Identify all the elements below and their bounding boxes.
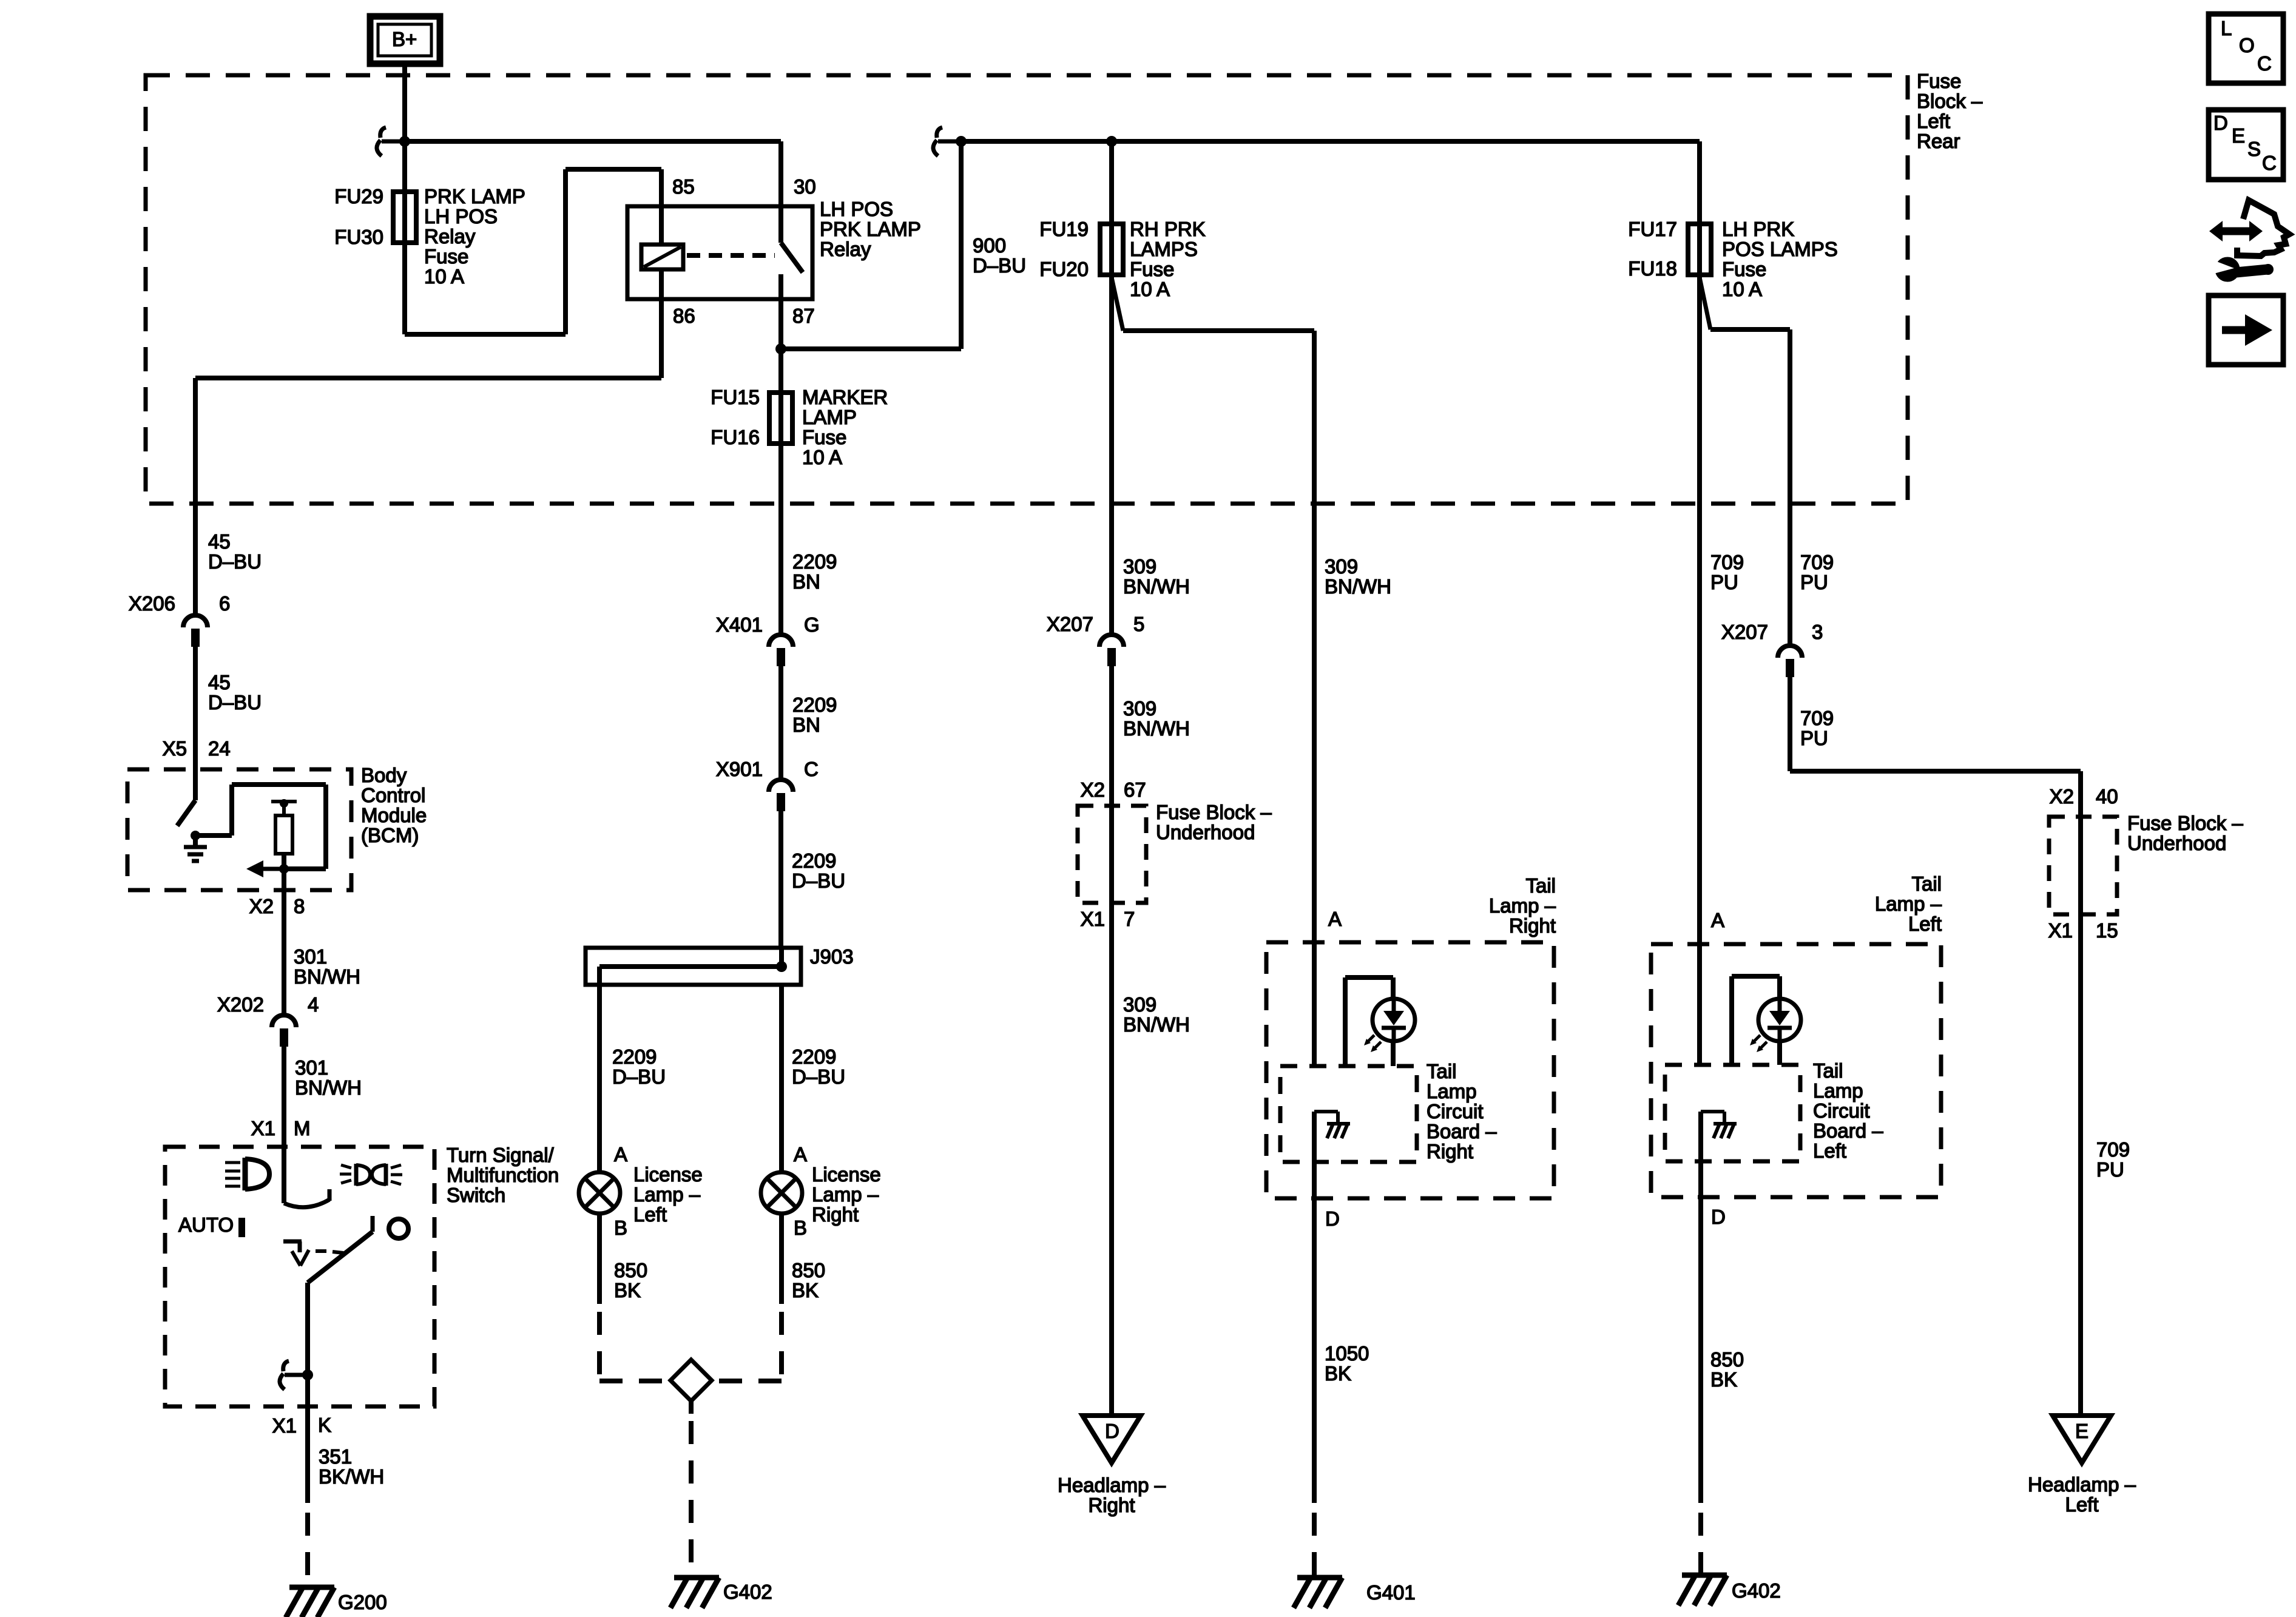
label X5: [163, 737, 187, 760]
svg-text:G401: G401: [1366, 1581, 1416, 1604]
label 309 BN/WH branch right: [1325, 555, 1391, 598]
svg-text:BN/WH: BN/WH: [295, 1076, 362, 1099]
svg-text:LAMPS: LAMPS: [1130, 238, 1198, 260]
svg-text:Right: Right: [1088, 1494, 1135, 1516]
svg-text:S: S: [2247, 138, 2261, 160]
svg-text:FU19: FU19: [1039, 218, 1089, 240]
label FU29: [334, 185, 383, 208]
tail lamp left LED return: [1777, 1041, 1782, 1065]
svg-text:A: A: [1328, 908, 1342, 930]
wire relay pin 86 to left branch: [195, 299, 661, 504]
svg-text:A: A: [1711, 909, 1724, 931]
svg-text:LAMP: LAMP: [802, 406, 857, 428]
connector X202 pin 4: [272, 1015, 296, 1047]
junction dot at FU19 tap: [1106, 136, 1117, 147]
label 2209 D-BU above J903: [792, 849, 845, 892]
svg-text:86: 86: [673, 305, 695, 327]
splice below switch: [280, 1361, 313, 1389]
splice S2 on right bus: [933, 127, 967, 156]
svg-text:BN/WH: BN/WH: [294, 965, 360, 988]
wire bus from S1 to relay pin 30: [405, 139, 781, 144]
label 709 PU lower: [2096, 1138, 2130, 1181]
BCM switch input wire and blade: [177, 769, 195, 826]
svg-text:2209: 2209: [792, 1045, 836, 1068]
svg-text:Left: Left: [1917, 110, 1950, 132]
svg-text:B: B: [794, 1217, 807, 1239]
license lamp right bulb: [761, 1172, 802, 1214]
connector X207 pin 5: [1099, 635, 1124, 666]
off-page connector E headlamp left: [2053, 1416, 2111, 1463]
svg-text:BN: BN: [792, 570, 820, 593]
svg-text:X207: X207: [1721, 621, 1768, 643]
relay actuator dashed link: [687, 253, 775, 258]
svg-text:D–BU: D–BU: [792, 869, 845, 892]
label pin 24: [208, 737, 231, 760]
wire X207-3 to fuse block underhood right: [1790, 677, 2081, 818]
svg-text:Fuse: Fuse: [802, 426, 846, 448]
svg-text:709: 709: [1800, 551, 1834, 573]
svg-text:2209: 2209: [792, 694, 837, 716]
svg-text:M: M: [294, 1117, 311, 1139]
label X207 (pin 3): [1721, 621, 1768, 643]
svg-text:G: G: [804, 613, 820, 636]
wire bus S2 to FU17: [961, 139, 1700, 144]
label 709 PU mid: [1800, 707, 1834, 749]
svg-text:Board –: Board –: [1813, 1119, 1883, 1142]
svg-text:X1: X1: [1081, 908, 1105, 930]
svg-text:7: 7: [1124, 908, 1135, 930]
svg-text:MARKER: MARKER: [802, 386, 888, 408]
tail lamp left output wire D: [1698, 1112, 1703, 1503]
svg-text:License: License: [633, 1163, 703, 1186]
label 351 BK/WH: [319, 1445, 384, 1488]
label pin K: [318, 1414, 331, 1436]
label License Lamp - Left: [633, 1163, 703, 1226]
svg-text:PU: PU: [1710, 571, 1738, 593]
relay coil: [641, 208, 683, 299]
svg-text:X401: X401: [716, 613, 763, 636]
label pin 3: [1812, 621, 1823, 643]
pin 30 label: [794, 175, 816, 198]
svg-text:10 A: 10 A: [1130, 278, 1170, 300]
label pin G: [804, 613, 820, 636]
label 850 BK left: [614, 1259, 647, 1301]
svg-text:PRK LAMP: PRK LAMP: [424, 185, 525, 208]
label pin 8: [294, 895, 305, 917]
svg-text:BN/WH: BN/WH: [1123, 1013, 1190, 1036]
dashed wire to ground G200: [305, 1513, 310, 1586]
label G402: [723, 1581, 772, 1603]
label 1050 BK: [1325, 1342, 1369, 1385]
svg-text:709: 709: [2096, 1138, 2130, 1161]
svg-text:Right: Right: [812, 1203, 859, 1226]
label pin M: [294, 1117, 311, 1139]
wire relay pin 87 down to junction: [778, 299, 783, 349]
pin 86 label: [673, 305, 695, 327]
label pin 6: [219, 592, 230, 615]
wire FU20 main down to X207-5: [1109, 277, 1114, 635]
label X1 (FB underhood): [1081, 908, 1105, 930]
wire bus corner down to fuse FU17: [1697, 141, 1702, 280]
headlamp icon: [225, 1158, 269, 1190]
label FU20: [1039, 258, 1089, 280]
label 309 BN/WH lower: [1123, 993, 1190, 1036]
icon car outline with arrows and wrench: [2209, 200, 2289, 282]
svg-text:LH PRK: LH PRK: [1722, 218, 1794, 240]
svg-text:709: 709: [1710, 551, 1744, 573]
svg-text:D–BU: D–BU: [208, 691, 262, 714]
turn signal / multifunction switch dashed box: [165, 1147, 434, 1406]
tail lamp left board ground: [1701, 1112, 1737, 1138]
fuse FU29/FU30 PRK LAMP LH POS Relay Fuse 10 A: [393, 192, 416, 243]
svg-text:X1: X1: [2048, 919, 2073, 942]
svg-text:D–BU: D–BU: [612, 1065, 666, 1088]
label X2 (FB underhood right): [2050, 785, 2074, 808]
svg-text:Tail: Tail: [1813, 1059, 1843, 1082]
svg-text:6: 6: [219, 592, 230, 615]
wire X206 to BCM pin X5-24: [193, 647, 198, 769]
svg-text:X2: X2: [249, 895, 274, 917]
svg-text:Lamp: Lamp: [1813, 1079, 1863, 1102]
svg-text:85: 85: [672, 175, 695, 198]
svg-text:AUTO: AUTO: [178, 1214, 234, 1236]
svg-text:Right: Right: [1509, 914, 1556, 937]
svg-text:850: 850: [792, 1259, 825, 1281]
tail lamp left LED branch: [1732, 976, 1780, 1065]
label X1 (switch bottom): [272, 1414, 297, 1437]
svg-text:D: D: [1325, 1207, 1340, 1230]
svg-text:2209: 2209: [792, 849, 836, 872]
dashed wire to ground G402 right: [1698, 1513, 1703, 1574]
label RH PRK LAMPS Fuse 10 A: [1130, 218, 1206, 300]
svg-text:8: 8: [294, 895, 305, 917]
label pin 7: [1124, 908, 1135, 930]
svg-text:J903: J903: [810, 945, 854, 968]
label Fuse Block - Underhood (middle): [1156, 801, 1272, 843]
wire FU18 main down to tail lamp left: [1697, 277, 1702, 944]
svg-text:Tail: Tail: [1911, 873, 1942, 895]
svg-text:Relay: Relay: [424, 225, 476, 248]
BCM sense arrow: [246, 860, 289, 877]
fuse FU19/FU20 RH PRK LAMPS Fuse 10 A: [1100, 224, 1123, 275]
label G401: [1366, 1581, 1416, 1604]
wire junction to fuse FU15: [778, 349, 783, 448]
label X206: [129, 592, 175, 615]
label LH PRK POS LAMPS Fuse 10 A: [1722, 218, 1838, 300]
switch contact circle: [389, 1219, 408, 1238]
tail lamp right circuit board dashed box: [1280, 1066, 1417, 1162]
tail lamp right LED branch: [1345, 977, 1393, 1066]
pin 87 label: [792, 305, 815, 327]
svg-text:67: 67: [1124, 778, 1146, 801]
svg-text:309: 309: [1123, 697, 1156, 720]
svg-text:301: 301: [295, 1056, 328, 1079]
label LH POS PRK LAMP Relay: [820, 198, 921, 260]
label pin 40: [2096, 785, 2118, 808]
svg-text:FU15: FU15: [711, 386, 760, 408]
svg-text:X202: X202: [217, 993, 264, 1016]
label pin B left lamp: [614, 1217, 627, 1239]
svg-text:709: 709: [1800, 707, 1834, 729]
BCM pull-up resistor: [271, 799, 297, 869]
wire switch to X1-K: [305, 1375, 310, 1503]
label X2 (FB underhood): [1081, 778, 1105, 801]
ground G402 (license lamps): [670, 1578, 719, 1608]
svg-text:Fuse: Fuse: [1130, 258, 1174, 280]
svg-text:G402: G402: [723, 1581, 772, 1603]
label FU18: [1628, 257, 1677, 280]
svg-text:Underhood: Underhood: [2127, 832, 2226, 854]
label FU17: [1628, 218, 1677, 240]
label pin C: [804, 758, 819, 780]
label pin D tail lamp left: [1711, 1206, 1726, 1228]
label Headlamp - Left: [2028, 1473, 2136, 1516]
label pin 5: [1133, 613, 1144, 635]
power terminal B+: [370, 16, 440, 64]
svg-text:X5: X5: [163, 737, 187, 760]
label X2: [249, 895, 274, 917]
svg-text:FU17: FU17: [1628, 218, 1677, 240]
svg-text:FU29: FU29: [334, 185, 383, 208]
svg-text:X2: X2: [2050, 785, 2074, 808]
label X202: [217, 993, 264, 1016]
wire B+ down to splice S1: [402, 64, 407, 141]
wire X207-5 to fuse block underhood: [1109, 666, 1114, 806]
svg-text:Fuse: Fuse: [1917, 70, 1961, 92]
svg-text:Relay: Relay: [820, 238, 871, 260]
label G200: [338, 1591, 387, 1613]
svg-text:D: D: [1711, 1206, 1726, 1228]
wire fuse block underhood to headlamp right: [1109, 903, 1114, 1416]
svg-text:X206: X206: [129, 592, 175, 615]
svg-text:309: 309: [1123, 555, 1156, 578]
wire FU18 branch to X207-3: [1700, 277, 1790, 646]
svg-text:PU: PU: [2096, 1158, 2124, 1181]
svg-text:D–BU: D–BU: [973, 254, 1026, 277]
fuse FU15/FU16 MARKER LAMP Fuse 10 A: [769, 393, 792, 444]
svg-text:850: 850: [1710, 1348, 1744, 1371]
wire J903 to license lamp right: [779, 985, 784, 1172]
ground G402 (tail lamp left): [1678, 1575, 1727, 1605]
svg-text:FU16: FU16: [711, 426, 760, 448]
label 2209 D-BU right: [792, 1045, 845, 1088]
svg-text:Lamp –: Lamp –: [1875, 893, 1942, 915]
connector X207 pin 3: [1778, 646, 1802, 677]
label X401: [716, 613, 763, 636]
svg-text:Fuse: Fuse: [424, 245, 468, 268]
switch detent symbol: [283, 1241, 343, 1266]
svg-text:C: C: [2262, 152, 2277, 174]
label Tail Lamp - Left: [1875, 873, 1942, 935]
svg-text:5: 5: [1133, 613, 1144, 635]
svg-text:Turn Signal/: Turn Signal/: [447, 1144, 555, 1166]
ground G401: [1294, 1578, 1342, 1608]
svg-text:309: 309: [1123, 993, 1156, 1016]
label 301 BN/WH upper: [294, 945, 360, 988]
svg-text:850: 850: [614, 1259, 647, 1281]
label FU15: [711, 386, 760, 408]
label 850 BK tail lamp left: [1710, 1348, 1744, 1391]
svg-text:D–BU: D–BU: [208, 550, 262, 573]
pin 85 label: [672, 175, 695, 198]
svg-text:309: 309: [1325, 555, 1358, 578]
tail lamp right board ground: [1314, 1112, 1350, 1138]
svg-text:(BCM): (BCM): [361, 824, 419, 846]
svg-text:45: 45: [208, 671, 231, 694]
svg-text:LH POS: LH POS: [820, 198, 893, 220]
svg-text:LH POS: LH POS: [424, 205, 498, 228]
svg-text:301: 301: [294, 945, 327, 968]
svg-text:BN: BN: [792, 714, 820, 736]
wire license lamp right to ground splice: [712, 1214, 782, 1381]
svg-text:10 A: 10 A: [802, 446, 842, 468]
tail lamp right output wire D: [1312, 1112, 1317, 1503]
wire bus tap to fuse FU19: [1109, 141, 1114, 280]
connector X901 pin C: [769, 780, 793, 811]
svg-text:Headlamp –: Headlamp –: [1058, 1474, 1166, 1496]
svg-text:Lamp: Lamp: [1427, 1080, 1477, 1102]
tail lamp left feed wire: [1697, 944, 1702, 1065]
label 2209 BN lower: [792, 694, 837, 736]
label 2209 D-BU left: [612, 1045, 666, 1088]
svg-text:X207: X207: [1047, 613, 1093, 635]
label Tail Lamp Circuit Board - Left: [1813, 1059, 1883, 1162]
relay K1 LH POS PRK LAMP Relay box: [627, 206, 812, 299]
svg-text:O: O: [2239, 34, 2255, 56]
label G402 right: [1732, 1579, 1781, 1602]
wire X202 to switch X1-M: [282, 1047, 286, 1147]
splice pack J903 box: [586, 948, 801, 985]
tail lamp right LED: [1364, 999, 1415, 1052]
fuse FU17/FU18 LH PRK POS LAMPS Fuse 10 A: [1688, 224, 1711, 275]
svg-text:Left: Left: [633, 1203, 667, 1226]
svg-text:Control: Control: [361, 784, 425, 806]
label Body Control Module (BCM): [361, 764, 427, 846]
label FU19: [1039, 218, 1089, 240]
off-page connector D headlamp right: [1082, 1416, 1141, 1463]
label 900 D-BU: [973, 234, 1026, 277]
label X1 (FB underhood right): [2048, 919, 2073, 942]
svg-text:Circuit: Circuit: [1813, 1099, 1870, 1122]
svg-text:4: 4: [308, 993, 319, 1016]
fuse block - underhood dashed box (right): [2049, 817, 2117, 914]
svg-text:X901: X901: [716, 758, 763, 780]
wire fuse block underhood to headlamp left: [2078, 914, 2083, 1416]
wire X401 to X901: [778, 666, 783, 780]
label 309 BN/WH mid: [1123, 697, 1190, 740]
body control module BCM dashed box: [127, 769, 351, 890]
tail lamp left dashed box: [1651, 944, 1941, 1197]
svg-text:BN/WH: BN/WH: [1325, 575, 1391, 598]
svg-text:X2: X2: [1081, 778, 1105, 801]
svg-text:Right: Right: [1427, 1140, 1473, 1163]
label pin A tail lamp right: [1328, 908, 1342, 930]
wire license lamp left to ground splice: [599, 1214, 669, 1381]
license lamp left bulb: [579, 1172, 620, 1214]
svg-text:K: K: [318, 1414, 331, 1436]
label Tail Lamp Circuit Board - Right: [1427, 1060, 1497, 1163]
svg-text:BK: BK: [1710, 1368, 1737, 1391]
svg-text:Lamp –: Lamp –: [633, 1183, 701, 1206]
BCM ground node: [184, 785, 326, 869]
svg-text:24: 24: [208, 737, 231, 760]
svg-text:BK: BK: [1325, 1362, 1351, 1385]
svg-text:C: C: [804, 758, 819, 780]
wire left branch to connector X206: [193, 504, 198, 614]
svg-text:E: E: [2075, 1420, 2088, 1442]
label 301 BN/WH lower: [295, 1056, 362, 1099]
svg-text:Block –: Block –: [1917, 90, 1983, 112]
ground splice diamond: [670, 1360, 712, 1401]
junction node at pin 87 (900 D-BU): [775, 141, 961, 354]
icon box right arrow: [2209, 295, 2283, 365]
wire FU30 to relay pin 85 (staircase): [405, 169, 661, 334]
label X207 (pin 5): [1047, 613, 1093, 635]
icon box LOC: [2209, 14, 2283, 83]
label X901: [716, 758, 763, 780]
svg-text:BK: BK: [614, 1279, 641, 1301]
label pin 4: [308, 993, 319, 1016]
svg-text:RH PRK: RH PRK: [1130, 218, 1206, 240]
svg-text:G402: G402: [1732, 1579, 1781, 1602]
label Fuse Block - Left Rear: [1917, 70, 1983, 152]
svg-text:X1: X1: [272, 1414, 297, 1437]
tail lamp right LED return: [1391, 1041, 1396, 1066]
svg-text:10 A: 10 A: [1722, 278, 1762, 300]
svg-text:87: 87: [792, 305, 815, 327]
switch wiper arm from pin M: [284, 1147, 329, 1207]
tail lamp left circuit board dashed box: [1665, 1065, 1800, 1161]
label pin 67: [1124, 778, 1146, 801]
svg-text:D: D: [1105, 1420, 1119, 1442]
svg-text:L: L: [2221, 17, 2232, 39]
label MARKER LAMP Fuse 10 A: [802, 386, 888, 468]
label pin B right lamp: [794, 1217, 807, 1239]
label 45 D-BU upper: [208, 530, 262, 573]
svg-text:Fuse Block –: Fuse Block –: [1156, 801, 1272, 823]
park lamp icon: [340, 1164, 402, 1186]
svg-text:15: 15: [2096, 919, 2118, 942]
label 709 PU right of fuse: [1800, 551, 1834, 593]
wire BCM output X2-8: [282, 869, 286, 1015]
splice S1 with junction dot: [377, 127, 410, 156]
label Tail Lamp - Right: [1489, 874, 1556, 937]
label FU30: [334, 226, 383, 248]
svg-text:FU30: FU30: [334, 226, 383, 248]
label X1 (switch top): [251, 1117, 275, 1139]
wire S1 down to fuse FU29: [402, 141, 407, 248]
label pin A left lamp: [614, 1143, 627, 1166]
ground G200: [286, 1587, 334, 1617]
label J903: [810, 945, 854, 968]
svg-text:License: License: [812, 1163, 881, 1186]
svg-text:POS LAMPS: POS LAMPS: [1722, 238, 1838, 260]
label Turn Signal/Multifunction Switch: [447, 1144, 559, 1206]
tail lamp left LED: [1750, 999, 1801, 1052]
svg-text:3: 3: [1812, 621, 1823, 643]
svg-text:BK/WH: BK/WH: [319, 1465, 384, 1488]
label pin D tail lamp right: [1325, 1207, 1340, 1230]
svg-text:B+: B+: [392, 28, 417, 50]
svg-text:2209: 2209: [792, 550, 837, 573]
wire X901 to splice pack J903: [778, 811, 783, 948]
svg-text:BN/WH: BN/WH: [1123, 575, 1190, 598]
svg-text:Multifunction: Multifunction: [447, 1164, 559, 1186]
connector X401 pin G: [769, 635, 793, 666]
label FU16: [711, 426, 760, 448]
svg-text:Module: Module: [361, 804, 427, 826]
icon box DESC: [2209, 110, 2283, 180]
